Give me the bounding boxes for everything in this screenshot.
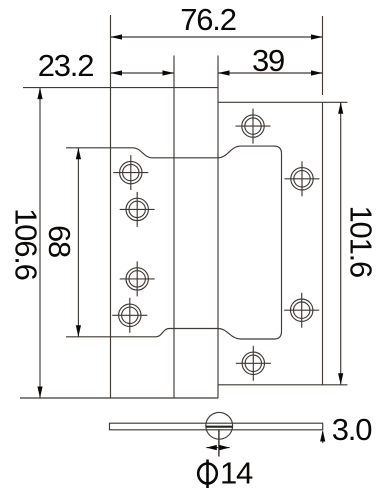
dimension line 23.2 (111, 72, 175, 74)
dimension line phi14 (206, 447, 229, 449)
dimension line 101.6 (340, 102, 342, 385)
right leaf bottom edge (extension for 101.6) (218, 384, 348, 386)
screw hole L4 (112, 298, 147, 333)
top view: section chord inside circle (206, 426, 233, 428)
svg-text:3.0: 3.0 (332, 412, 372, 447)
flap lower contour with S-curve (extension for 68) (66, 329, 218, 337)
arrowhead 3.0 up (320, 430, 325, 442)
svg-text:14: 14 (220, 456, 253, 489)
dimension line 76.2 (111, 36, 323, 38)
arrowhead phi14 left (206, 445, 217, 450)
arrowhead 101.6 top (338, 102, 343, 114)
top view: vertical centerline below circle (218, 429, 220, 456)
screw hole L3 (120, 261, 155, 296)
arrowhead 76.2 right (311, 34, 323, 39)
top view: plate bar (110, 423, 323, 430)
dimension arrow line 3.0 (322, 432, 324, 444)
dimension line 106.6 (39, 88, 41, 398)
arrowhead 106.6 bottom (37, 387, 42, 399)
dimension line 68 (77, 148, 79, 337)
label phi symbol (drawn) (198, 460, 217, 489)
screw hole L2 (120, 192, 155, 227)
flap upper contour with S-curve (extension for 68) (66, 148, 218, 158)
arrowhead 106.6 top (37, 88, 42, 100)
arrowhead phi14 right (219, 445, 230, 450)
screw hole L1 (113, 155, 148, 190)
svg-text:39: 39 (252, 43, 284, 78)
screw hole R4 bottom (236, 346, 271, 381)
right leaf top edge (extends as extension line for 101.6) (218, 101, 348, 103)
arrowhead 23.2 right (163, 70, 175, 75)
top view: barrel circle phi14 (206, 412, 233, 439)
cutout in right leaf (rounded contour) (218, 146, 282, 339)
barrel left edge (173, 56, 175, 399)
arrowhead 23.2 left (111, 70, 123, 75)
left leaf left edge + extension line (110, 15, 112, 398)
arrowhead 68 bottom (76, 325, 81, 337)
svg-text:101.6: 101.6 (344, 206, 379, 278)
arrowhead 76.2 left (111, 34, 123, 39)
barrel right edge (217, 56, 219, 399)
svg-text:76.2: 76.2 (180, 2, 236, 37)
left leaf bottom edge + barrel bottom (extension for 106.6) (20, 397, 218, 399)
left leaf top edge (extends as extension line for 106.6) (23, 87, 218, 89)
arrowhead 39 right (311, 70, 323, 75)
screw hole R2 right-top (285, 161, 320, 196)
right leaf right edge extension line (top) (322, 16, 324, 95)
arrowhead 101.6 bottom (338, 373, 343, 385)
arrowhead 68 top (76, 148, 81, 160)
right leaf right edge (322, 102, 324, 385)
svg-text:106.6: 106.6 (9, 208, 44, 280)
arrowhead 39 left (218, 70, 230, 75)
svg-text:68: 68 (42, 225, 77, 257)
screw hole R3 right-bottom (284, 293, 319, 328)
screw hole R1 top (236, 109, 271, 144)
dimension line 39 (218, 72, 323, 74)
svg-text:23.2: 23.2 (38, 48, 94, 83)
